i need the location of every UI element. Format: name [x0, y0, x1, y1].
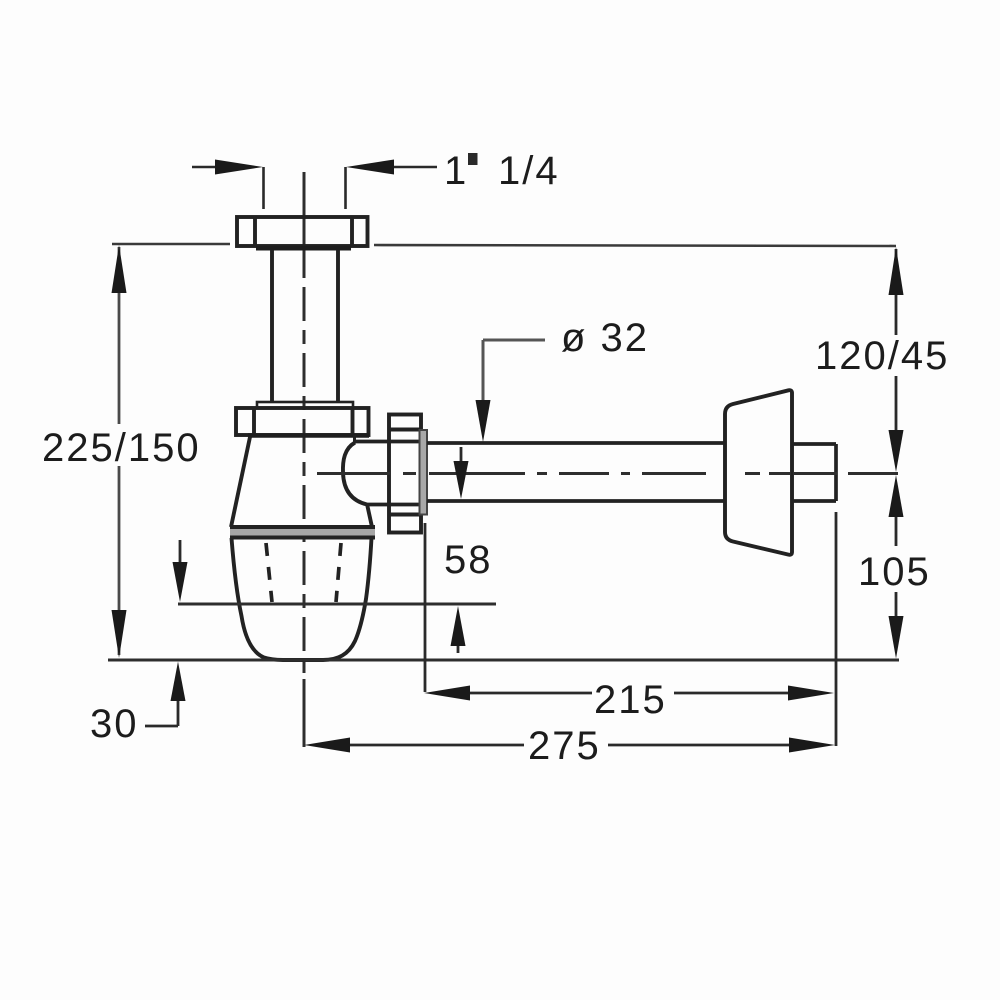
dimension 215 — [468, 692, 794, 695]
svg-text:215: 215 — [594, 678, 667, 722]
body lower cup — [232, 538, 372, 660]
extension line at nut base level y=244 — [112, 244, 896, 246]
dimension 275 — [348, 744, 795, 747]
svg-text:30: 30 — [90, 702, 139, 746]
joint band — [230, 528, 375, 536]
dimension 58 — [460, 447, 463, 465]
svg-text:1: 1 — [444, 149, 468, 193]
lower nut — [236, 408, 369, 435]
lower nut bottom edge — [248, 433, 369, 438]
inlet pipe — [272, 250, 338, 402]
baseline y=660 — [108, 659, 899, 662]
extension line for 215 left — [424, 523, 427, 692]
dip tube dashed left — [266, 543, 272, 602]
svg-text:1/4: 1/4 — [498, 149, 560, 193]
svg-text:ø 32: ø 32 — [561, 316, 649, 360]
outlet stub top edge — [355, 440, 420, 444]
flare collar above lower nut — [257, 402, 353, 408]
short vertical below nut right — [353, 435, 356, 443]
outlet pipe — [427, 443, 836, 501]
body upper left edge — [231, 437, 250, 527]
dip tube dashed right — [336, 543, 341, 602]
body shoulder bulge arc — [343, 443, 367, 505]
top nut collar — [256, 246, 351, 251]
dimension 120/45 — [895, 249, 898, 620]
top nut — [237, 217, 368, 246]
horizontal centerline — [317, 472, 898, 475]
wall cone — [725, 390, 792, 555]
internal level line y=604 — [178, 603, 496, 606]
outlet stub bottom edge — [367, 503, 420, 507]
body right edge above band — [367, 504, 372, 527]
dimension 1" 1/4 — [192, 167, 437, 209]
dimension 225/150 — [118, 247, 121, 655]
extension line right x=836 — [835, 512, 838, 746]
dimension 30 — [179, 540, 182, 568]
svg-text:120/45: 120/45 — [815, 334, 949, 378]
svg-text:105: 105 — [858, 550, 931, 594]
svg-text:275: 275 — [528, 724, 601, 768]
washer — [420, 430, 428, 515]
svg-text:58: 58 — [444, 538, 493, 582]
elbow nut — [389, 415, 421, 533]
vertical centerline — [303, 172, 306, 747]
dimension ø32 leader — [483, 340, 545, 407]
svg-text:225/150: 225/150 — [42, 426, 201, 470]
